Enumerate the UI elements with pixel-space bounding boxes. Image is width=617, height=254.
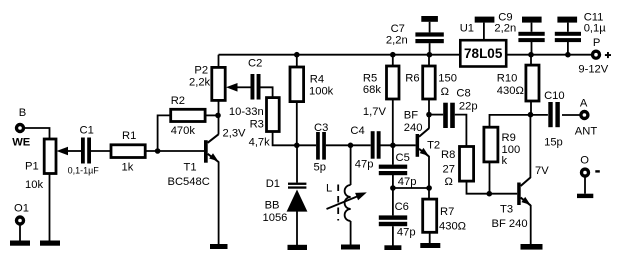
svg-text:C3: C3 [314, 122, 328, 134]
svg-text:R5: R5 [363, 73, 377, 85]
svg-text:O: O [580, 154, 589, 166]
svg-text:9-12V: 9-12V [578, 64, 608, 76]
svg-text:D1: D1 [266, 178, 280, 190]
svg-text:27: 27 [443, 164, 455, 176]
svg-text:Ω: Ω [441, 86, 449, 98]
svg-text:R4: R4 [310, 73, 324, 85]
svg-text:BC548C: BC548C [168, 176, 210, 188]
svg-text:C4: C4 [350, 125, 364, 137]
svg-text:P2: P2 [194, 65, 208, 77]
svg-text:B: B [19, 107, 26, 119]
svg-text:R2: R2 [171, 95, 185, 107]
svg-text:430Ω: 430Ω [439, 221, 466, 233]
svg-text:A: A [580, 98, 588, 110]
svg-text:WE: WE [12, 137, 31, 149]
svg-text:R9: R9 [502, 132, 516, 144]
svg-text:10-33n: 10-33n [229, 106, 264, 118]
svg-text:15p: 15p [544, 137, 563, 149]
svg-text:7V: 7V [535, 165, 549, 177]
svg-text:R10: R10 [497, 73, 518, 85]
svg-text:R6: R6 [405, 73, 419, 85]
svg-text:47p: 47p [398, 176, 417, 188]
svg-text:C2: C2 [248, 58, 262, 70]
svg-text:10k: 10k [25, 179, 43, 191]
svg-text:R3: R3 [250, 119, 264, 131]
svg-text:BB: BB [265, 200, 280, 212]
svg-text:150: 150 [438, 73, 457, 85]
svg-text:U1: U1 [460, 22, 474, 34]
svg-text:R7: R7 [440, 206, 454, 218]
svg-text:Ω: Ω [445, 176, 453, 188]
svg-text:2,2n: 2,2n [494, 23, 516, 35]
svg-text:470k: 470k [171, 125, 196, 137]
svg-text:T3: T3 [500, 204, 513, 216]
svg-text:78L05: 78L05 [464, 46, 503, 61]
svg-text:2,3V: 2,3V [223, 128, 247, 140]
svg-text:47p: 47p [397, 227, 416, 239]
svg-text:C8: C8 [456, 88, 470, 100]
svg-text:22p: 22p [459, 101, 478, 113]
svg-text:68k: 68k [363, 84, 381, 96]
svg-text:k: k [502, 155, 508, 167]
svg-text:T2: T2 [427, 139, 440, 151]
svg-text:BF: BF [404, 109, 418, 121]
svg-text:C1: C1 [80, 125, 94, 137]
svg-text:T1: T1 [184, 161, 197, 173]
svg-text:C10: C10 [544, 90, 565, 102]
svg-text:P: P [593, 37, 600, 49]
svg-text:R8: R8 [441, 149, 455, 161]
svg-text:0,1-1µF: 0,1-1µF [68, 165, 100, 175]
svg-text:P1: P1 [25, 161, 39, 173]
svg-text:430Ω: 430Ω [497, 85, 524, 97]
svg-text:C6: C6 [395, 201, 409, 213]
svg-text:R1: R1 [122, 130, 136, 142]
svg-text:1,7V: 1,7V [363, 106, 387, 118]
svg-text:0,1µ: 0,1µ [584, 23, 607, 35]
svg-text:C5: C5 [396, 152, 410, 164]
svg-text:1k: 1k [122, 161, 134, 173]
svg-text:ANT: ANT [575, 126, 598, 138]
svg-text:240: 240 [404, 122, 423, 134]
svg-text:L: L [326, 183, 332, 195]
svg-text:O1: O1 [14, 203, 29, 215]
svg-text:2,2n: 2,2n [386, 35, 408, 47]
svg-text:4,7k: 4,7k [249, 137, 271, 149]
svg-text:47p: 47p [355, 159, 374, 171]
svg-text:C7: C7 [391, 23, 405, 35]
svg-text:5p: 5p [314, 162, 326, 174]
svg-text:1056: 1056 [263, 212, 288, 224]
svg-text:2,2k: 2,2k [189, 77, 211, 89]
svg-text:BF 240: BF 240 [492, 218, 528, 230]
svg-text:100k: 100k [309, 86, 334, 98]
